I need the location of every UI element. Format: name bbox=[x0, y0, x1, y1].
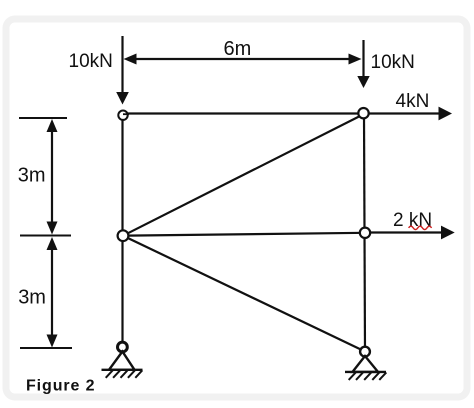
dimension tick bottom bbox=[20, 347, 72, 349]
red squiggly underline under kN bbox=[409, 226, 432, 229]
force arrow: 4kN (rightward) bbox=[369, 107, 452, 121]
wire: middle chord member bbox=[123, 233, 365, 236]
node B: top-right joint bbox=[358, 108, 368, 118]
node F: bottom-right joint bbox=[360, 347, 370, 357]
wire: left column member bbox=[121, 114, 123, 347]
pin support left bbox=[102, 352, 143, 378]
wire: diagonal mid-left to bottom-right bbox=[123, 236, 365, 352]
svg-text:4kN: 4kN bbox=[396, 91, 430, 112]
svg-text:Figure 2: Figure 2 bbox=[26, 377, 95, 394]
node E: bottom-left joint bbox=[118, 342, 128, 352]
svg-text:6m: 6m bbox=[224, 38, 252, 60]
dimension 3m upper: vertical dimension line with arrowheads bbox=[47, 119, 58, 235]
svg-text:3m: 3m bbox=[18, 164, 46, 186]
svg-text:3m: 3m bbox=[18, 287, 46, 309]
force arrow: 2 kN (rightward) bbox=[370, 226, 455, 240]
dimension tick top bbox=[19, 117, 67, 119]
wire: right column member bbox=[364, 114, 365, 352]
dimension 6m: horizontal dimension line with outward arrowheads bbox=[124, 54, 362, 65]
wire: top chord member bbox=[123, 112, 365, 114]
node D: mid-right joint bbox=[360, 228, 370, 238]
dimension tick middle bbox=[20, 235, 71, 237]
node A: top-left joint bbox=[118, 111, 127, 120]
svg-text:10kN: 10kN bbox=[371, 52, 415, 73]
force arrow: 10kN left (downward) bbox=[116, 36, 129, 105]
node C: mid-left joint bbox=[118, 230, 129, 241]
svg-text:10kN: 10kN bbox=[69, 51, 113, 72]
dimension 3m lower: vertical dimension line with arrowheads bbox=[47, 237, 58, 348]
wire: diagonal top-right to mid-left bbox=[123, 114, 364, 236]
force arrow: 10kN right (downward) bbox=[357, 40, 369, 88]
pin support right bbox=[345, 356, 386, 380]
